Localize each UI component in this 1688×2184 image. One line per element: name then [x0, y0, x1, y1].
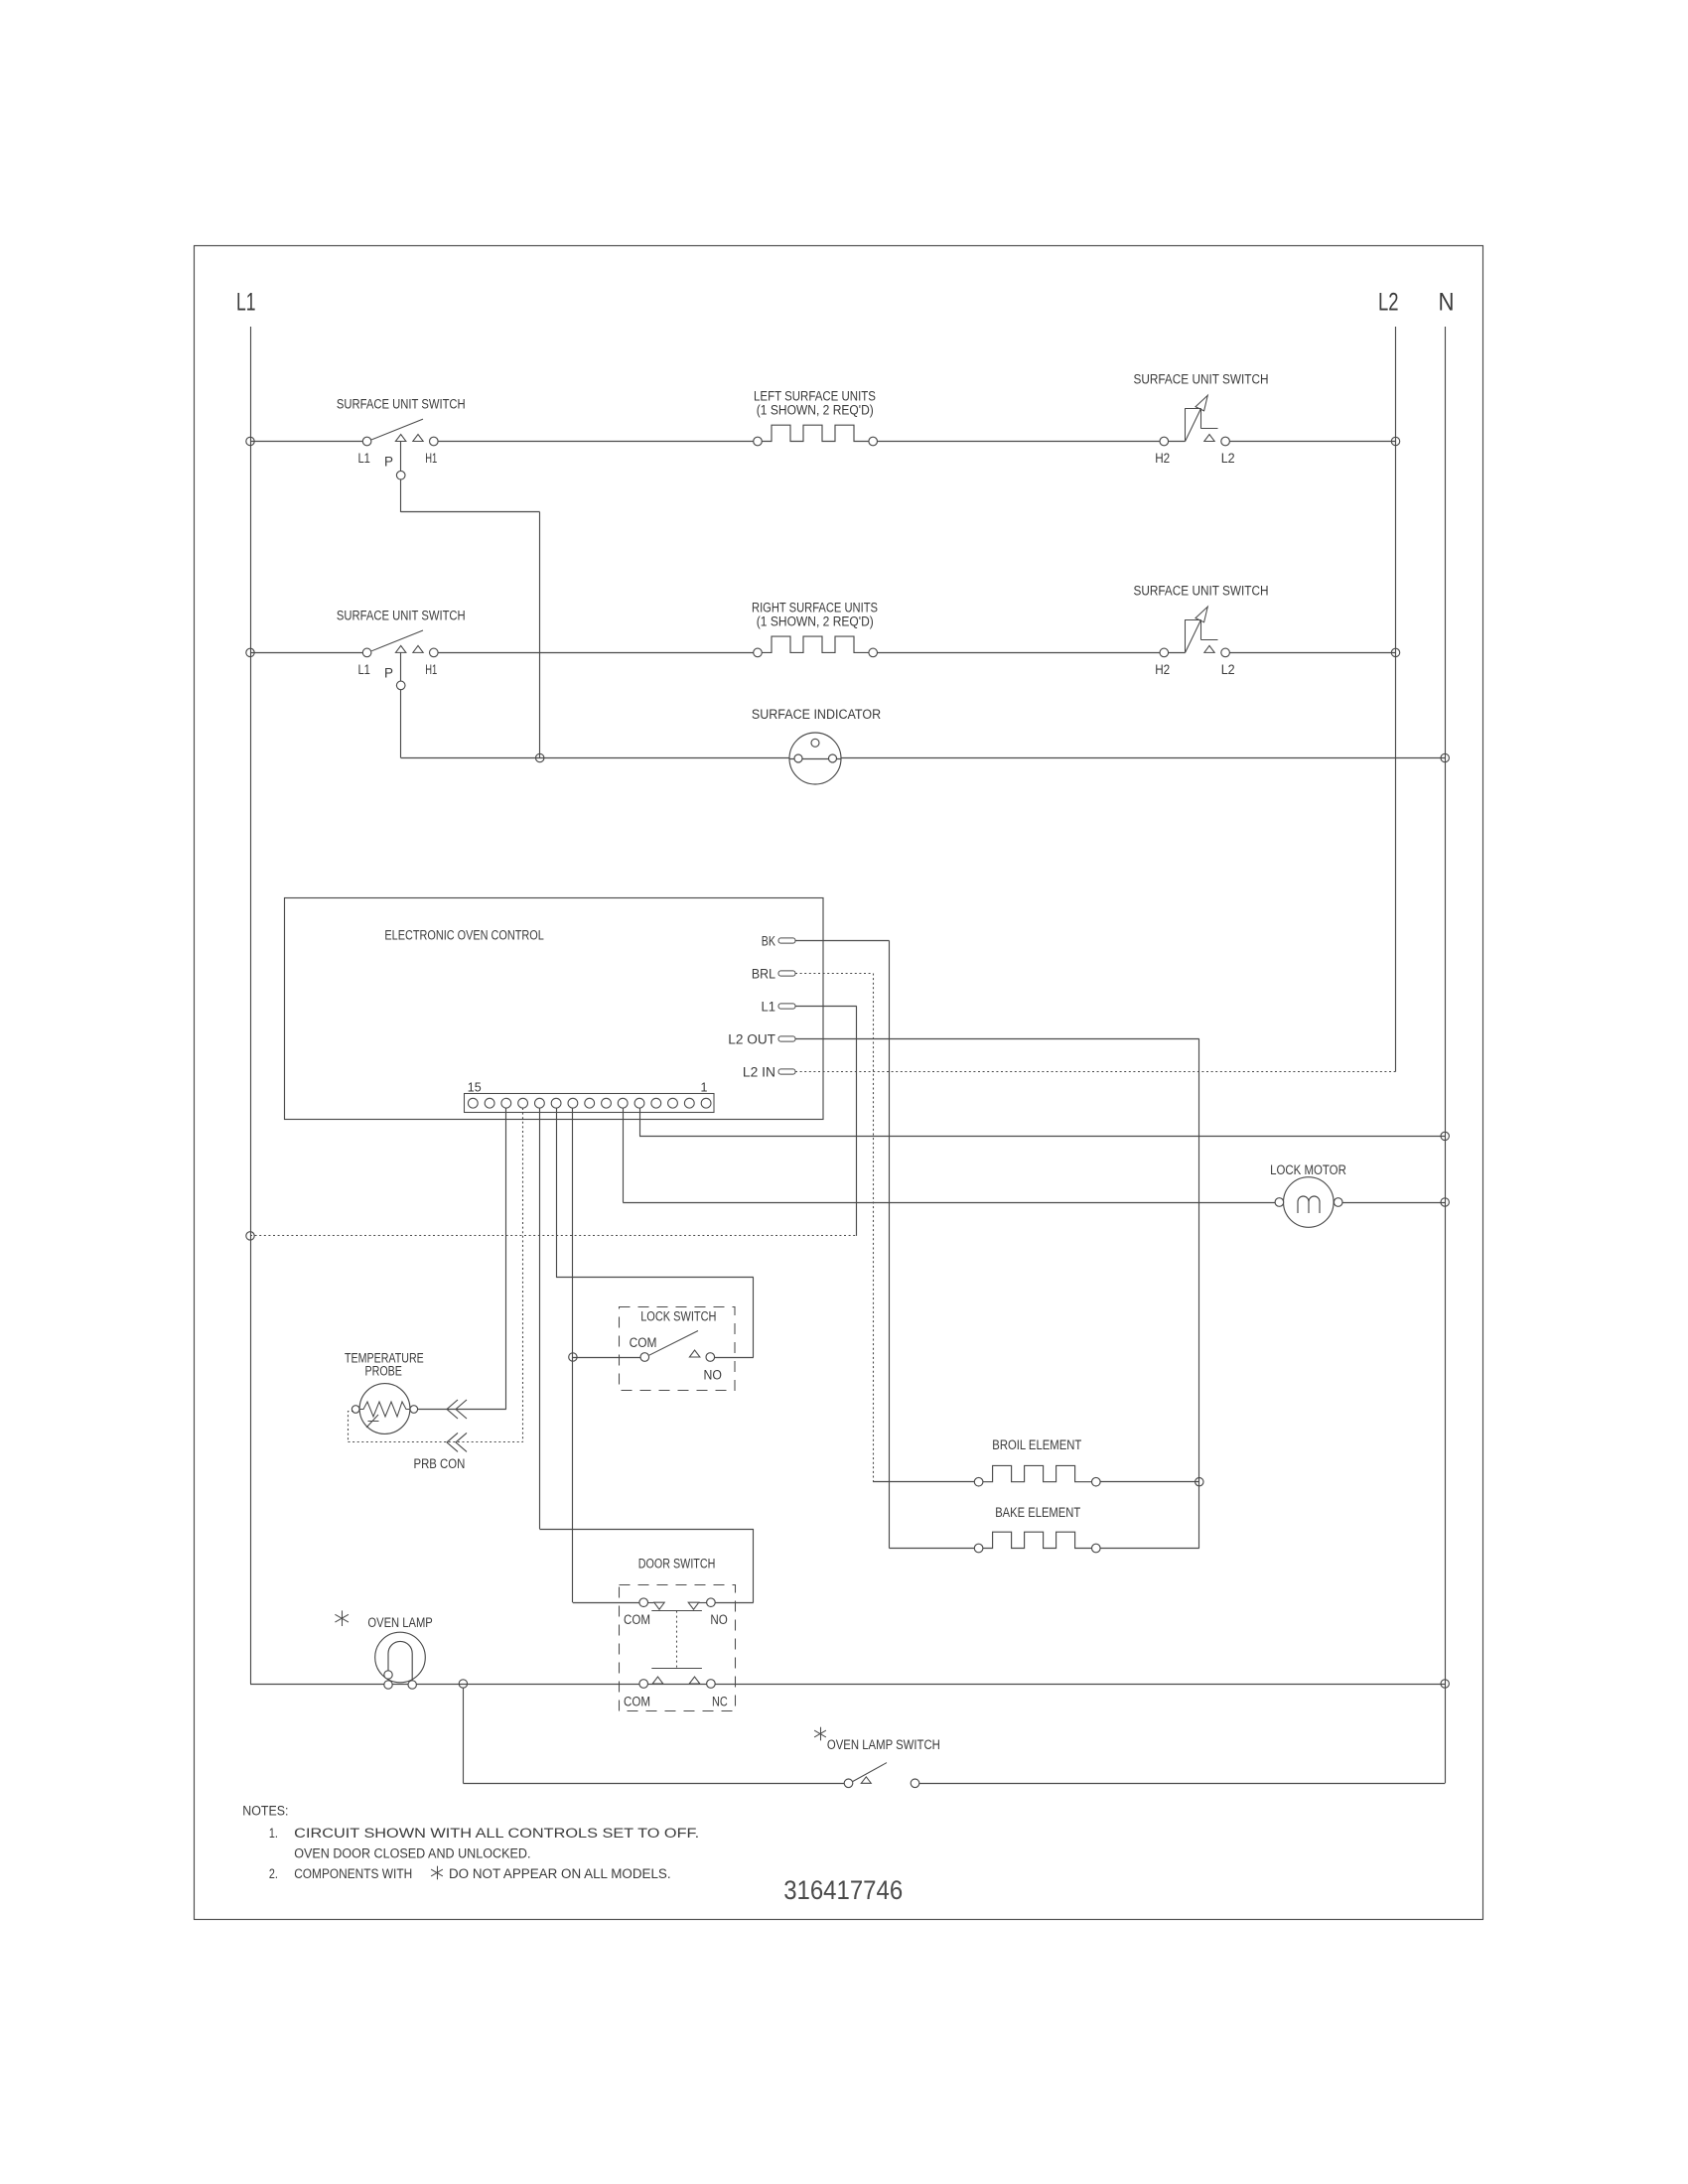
wire surface indicator line: [401, 757, 1446, 759]
label oven lamp switch: [820, 1727, 822, 1741]
contact triangle: [1204, 435, 1214, 442]
junction N/indicator: [1441, 753, 1449, 761]
svg-text:1: 1: [701, 1081, 708, 1095]
wire L2 rail: [1395, 327, 1397, 1072]
wire: [438, 441, 758, 443]
terminal H1: [430, 437, 439, 446]
svg-text:LEFT SURFACE UNITS: LEFT SURFACE UNITS: [754, 389, 876, 404]
terminal H1: [430, 648, 439, 657]
junction N/lamp line: [1441, 1680, 1449, 1688]
svg-text:OVEN LAMP SWITCH: OVEN LAMP SWITCH: [827, 1737, 940, 1752]
junction pilot lines: [536, 753, 544, 761]
svg-text:RIGHT SURFACE UNITS: RIGHT SURFACE UNITS: [752, 601, 878, 615]
wire lamp switch to N: [919, 1783, 1445, 1785]
svg-text:N: N: [1439, 289, 1455, 317]
switch bracket: [1185, 408, 1187, 441]
svg-text:DO NOT APPEAR ON ALL MODELS.: DO NOT APPEAR ON ALL MODELS.: [449, 1866, 671, 1881]
svg-text:NO: NO: [710, 1612, 727, 1627]
surface unit switch left: terminal L1: [362, 437, 371, 446]
svg-text:NOTES:: NOTES:: [242, 1804, 288, 1819]
terminal L2: [1221, 437, 1230, 446]
svg-text:2.: 2.: [269, 1866, 278, 1881]
wire P drop row1: [400, 442, 402, 472]
wire: [400, 690, 402, 758]
wire: [1169, 441, 1186, 443]
wire motor to N: [1342, 1202, 1445, 1204]
heating element right surface units: [754, 648, 763, 657]
svg-text:COMPONENTS WITH: COMPONENTS WITH: [294, 1866, 412, 1881]
wire pin10drop to lock switch NO: [556, 1108, 558, 1278]
svg-text:BROIL ELEMENT: BROIL ELEMENT: [992, 1437, 1081, 1452]
junction L1 rail: [246, 1232, 254, 1240]
svg-text:P: P: [384, 455, 393, 470]
junction L1/row2: [246, 648, 254, 656]
svg-text:1.: 1.: [269, 1826, 278, 1841]
wire pin11drop to door switch NO: [539, 1108, 541, 1529]
svg-text:L1: L1: [357, 662, 370, 677]
wire pin12 to PRB CON (dashed): [522, 1108, 524, 1442]
switch blade with arrow: [1186, 400, 1205, 442]
temperature probe RT1: [359, 1384, 410, 1434]
wire L1: [795, 1006, 857, 1008]
door switch lower contacts: [639, 1680, 648, 1689]
svg-text:SURFACE INDICATOR: SURFACE INDICATOR: [752, 707, 882, 722]
svg-text:H2: H2: [1155, 662, 1170, 677]
lock switch box: [620, 1307, 736, 1391]
pole P triangle: [395, 435, 406, 442]
svg-text:L2: L2: [1378, 289, 1399, 317]
surface unit switch right: terminal H2: [1160, 437, 1169, 446]
wire pin to lock motor: [623, 1108, 625, 1202]
svg-text:PRB CON: PRB CON: [414, 1456, 466, 1471]
oven lamp DS1: [375, 1632, 426, 1683]
junction lamp switch drop: [459, 1680, 467, 1688]
terminal L2: [1221, 648, 1230, 657]
svg-text:H1: H1: [425, 662, 437, 677]
junction N/motor: [1441, 1198, 1449, 1206]
connector pins: [468, 1098, 478, 1108]
svg-text:LOCK MOTOR: LOCK MOTOR: [1270, 1162, 1346, 1177]
wire pin9drop to lock COM / door COM: [572, 1108, 574, 1602]
junction pin9wire/lockCOM: [569, 1353, 577, 1361]
svg-text:L1: L1: [236, 289, 256, 317]
oven lamp switch S3: [844, 1779, 853, 1788]
junction L2/row2: [1391, 648, 1399, 656]
svg-text:BK: BK: [762, 934, 775, 949]
door switch upper contacts: [639, 1598, 648, 1607]
switch blade: [371, 630, 423, 651]
contact triangle: [1204, 645, 1214, 652]
contact triangle: [413, 645, 423, 652]
EOC connector strip: [465, 1094, 715, 1113]
bake element: [974, 1544, 983, 1553]
svg-text:COM: COM: [624, 1612, 650, 1627]
terminal P row1: [396, 471, 405, 479]
broil element: [974, 1477, 983, 1486]
lock switch S2: [640, 1353, 649, 1362]
junction L1/row1: [246, 437, 254, 445]
svg-text:OVEN LAMP: OVEN LAMP: [367, 1615, 432, 1630]
svg-text:CIRCUIT SHOWN WITH ALL CONTROL: CIRCUIT SHOWN WITH ALL CONTROLS SET TO O…: [294, 1826, 699, 1841]
wire lock NO out: [715, 1357, 754, 1359]
svg-text:L2 OUT: L2 OUT: [728, 1032, 775, 1047]
switch bracket: [1185, 619, 1187, 652]
wire: [1229, 441, 1395, 443]
wire pin13 to temperature probe: [505, 1108, 507, 1410]
svg-text:P: P: [384, 665, 393, 680]
svg-text:L2: L2: [1221, 662, 1235, 677]
wire: [878, 441, 1161, 443]
wire: [250, 441, 367, 443]
svg-text:316417746: 316417746: [783, 1875, 903, 1905]
svg-text:H2: H2: [1155, 451, 1170, 466]
wire lamp switch drop: [463, 1688, 465, 1783]
wire bake left: [890, 1548, 979, 1550]
label oven lamp: [342, 1610, 344, 1626]
wire P drop row2: [400, 652, 402, 681]
svg-text:COM: COM: [624, 1695, 650, 1709]
svg-text:L2: L2: [1221, 451, 1235, 466]
surface unit switch left: terminal L1: [362, 648, 371, 657]
svg-text:COM: COM: [630, 1335, 657, 1350]
wire: [1229, 652, 1395, 654]
wire to door COM upper: [573, 1602, 639, 1604]
surface unit switch right: terminal H2: [1160, 648, 1169, 657]
wire: [438, 652, 758, 654]
contact triangle: [413, 435, 423, 442]
switch blade with arrow: [1186, 611, 1205, 652]
wire: [878, 652, 1161, 654]
svg-text:H1: H1: [425, 451, 437, 466]
svg-text:SURFACE UNIT SWITCH: SURFACE UNIT SWITCH: [337, 608, 466, 622]
wire: [1169, 652, 1186, 654]
svg-text:NO: NO: [704, 1368, 722, 1383]
svg-text:L1: L1: [762, 1000, 776, 1015]
electronic oven control box: [285, 898, 824, 1120]
wire broil left: [873, 1481, 979, 1483]
wire BK: [795, 940, 890, 942]
wire to lock COM: [573, 1357, 640, 1359]
svg-text:NC: NC: [712, 1695, 728, 1709]
junction L2/row1: [1391, 437, 1399, 445]
svg-text:SURFACE UNIT SWITCH: SURFACE UNIT SWITCH: [1134, 584, 1269, 599]
pole P triangle: [395, 645, 406, 652]
switch blade: [371, 419, 423, 440]
door switch actuator link: [651, 1610, 702, 1612]
heating element left surface units: [754, 437, 763, 446]
wire probe return (dashed): [349, 1412, 354, 1442]
svg-text:LOCK SWITCH: LOCK SWITCH: [640, 1309, 716, 1324]
svg-text:L1: L1: [357, 451, 370, 466]
svg-text:ELECTRONIC OVEN CONTROL: ELECTRONIC OVEN CONTROL: [384, 927, 544, 942]
junction N/pin wire: [1441, 1132, 1449, 1140]
wire N rail: [1445, 327, 1447, 1783]
svg-text:BRL: BRL: [752, 967, 776, 982]
surface indicator lamp: [789, 733, 841, 784]
svg-text:(1 SHOWN, 2 REQ'D): (1 SHOWN, 2 REQ'D): [757, 614, 874, 628]
svg-text:PROBE: PROBE: [365, 1363, 402, 1378]
wire broil right: [1100, 1481, 1199, 1483]
wire door NO out: [715, 1602, 754, 1604]
svg-text:OVEN DOOR CLOSED AND UNLOCKED.: OVEN DOOR CLOSED AND UNLOCKED.: [294, 1846, 530, 1861]
svg-text:SURFACE UNIT SWITCH: SURFACE UNIT SWITCH: [1134, 372, 1269, 387]
svg-text:(1 SHOWN, 2 REQ'D): (1 SHOWN, 2 REQ'D): [757, 403, 874, 418]
svg-text:L2 IN: L2 IN: [743, 1065, 775, 1080]
svg-text:DOOR SWITCH: DOOR SWITCH: [638, 1557, 716, 1571]
door switch box: [620, 1585, 736, 1711]
wire L1 rail: [250, 327, 252, 1684]
wire BRL: [795, 973, 873, 975]
junction broil/L2OUT: [1196, 1478, 1203, 1486]
svg-text:BAKE ELEMENT: BAKE ELEMENT: [995, 1505, 1080, 1520]
wire L2 IN: [795, 1071, 1396, 1073]
lock motor M1: [1284, 1177, 1335, 1228]
wire pin to N: [639, 1108, 641, 1136]
wire EOC L1 to rail: [250, 1235, 857, 1237]
terminal P row2: [396, 681, 405, 690]
svg-text:SURFACE UNIT SWITCH: SURFACE UNIT SWITCH: [337, 397, 466, 412]
wire L2 OUT: [795, 1038, 1199, 1040]
connector chevrons PRB: [447, 1400, 458, 1419]
wire bake right: [1100, 1548, 1199, 1550]
wire oven lamp line: [250, 1684, 1445, 1686]
svg-text:15: 15: [468, 1081, 482, 1095]
wire: [250, 652, 367, 654]
wire: [400, 479, 402, 512]
